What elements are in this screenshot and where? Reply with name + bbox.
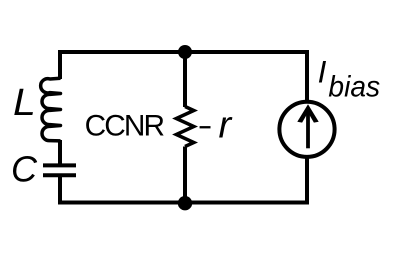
svg-text:I: I [318, 53, 327, 89]
label minus sign of -r [200, 126, 211, 128]
node junction dot bottom [178, 196, 192, 210]
wire bottom rail [58, 201, 309, 205]
wire right branch upper [305, 50, 309, 102]
svg-text:L: L [13, 81, 36, 123]
wire left branch lower [58, 175, 62, 204]
current source arrowhead [297, 104, 318, 122]
wire middle branch lower [183, 147, 187, 203]
wire right branch lower [305, 157, 309, 205]
wire left branch middle [58, 140, 62, 166]
svg-text:CCNR: CCNR [85, 110, 165, 143]
svg-text:r: r [219, 105, 233, 147]
current source circle [279, 102, 334, 157]
wire middle branch upper [183, 52, 187, 107]
capacitor C bottom plate [43, 173, 76, 177]
resistor -r zigzag [176, 107, 194, 147]
wire top rail [58, 50, 309, 54]
inductor L [41, 78, 61, 141]
current source arrow shaft [306, 112, 310, 148]
svg-text:C: C [11, 148, 38, 189]
svg-text:bias: bias [328, 71, 380, 104]
capacitor C top plate [43, 163, 76, 167]
node junction dot top [178, 45, 192, 59]
wire left branch upper [58, 50, 62, 79]
